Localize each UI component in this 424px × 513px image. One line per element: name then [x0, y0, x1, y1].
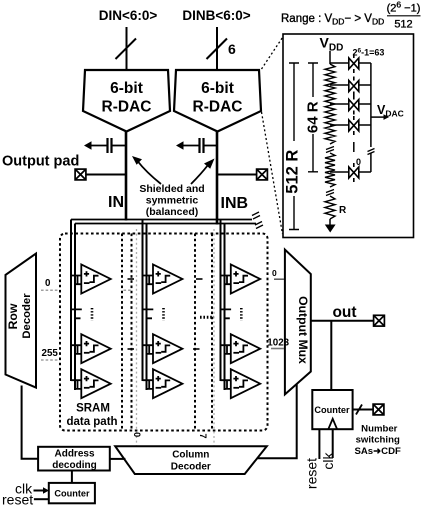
wire switch 4 to bus [359, 124, 371, 126]
block counter (address counter) [49, 483, 95, 503]
wire INB to pad [217, 174, 257, 176]
svg-text:Range : VDD− > VDD: Range : VDD− > VDD [281, 13, 384, 27]
dashed divider col2 left edge [131, 234, 133, 431]
comparator col3 row255 [221, 334, 261, 363]
svg-text:Output pad: Output pad [2, 154, 79, 170]
svg-text:DIN<6:0>: DIN<6:0> [99, 8, 158, 23]
block output mux [285, 250, 311, 395]
switch 0 [349, 163, 359, 182]
output bus [370, 63, 372, 172]
wire INB trunk [216, 132, 219, 225]
column select line 7 (gray dotted) [213, 229, 215, 446]
svg-text:64 R: 64 R [305, 101, 322, 133]
svg-text:IN: IN [108, 194, 124, 211]
wire reset (right) [318, 429, 320, 459]
svg-text:Row: Row [6, 303, 20, 329]
svg-text:512 R: 512 R [284, 150, 302, 194]
svg-text:7: 7 [198, 433, 208, 438]
wire row decoder to address decoding [22, 386, 38, 459]
tap wire switch 4 [330, 124, 350, 126]
dashed divider col2 right edge [194, 234, 196, 431]
svg-text:Counter: Counter [314, 405, 350, 415]
inset box [283, 34, 414, 238]
pad P4 (counter output pad) [373, 404, 384, 415]
block row decoder [6, 254, 37, 388]
capacitor C2 (right shield cap) [181, 138, 217, 153]
block U1 6-bit R-DAC left [83, 70, 170, 132]
column select line 0 (gray dotted) [136, 229, 138, 446]
rail col3 IN [220, 220, 222, 382]
rail col2 INB [146, 224, 148, 391]
wire clk (right) [332, 429, 334, 458]
rail col3 INB [224, 224, 226, 391]
vertical ellipsis col2 [162, 308, 165, 321]
svg-text:Counter: Counter [54, 489, 90, 499]
ellipsis switches [353, 142, 355, 152]
svg-text:switching: switching [356, 435, 400, 446]
wire VDAC [371, 116, 384, 118]
wire distribution line B (INB rail bus) [75, 223, 256, 225]
tap wire switch 0 [330, 171, 350, 173]
SRAM array outer dashed box [60, 234, 268, 431]
svg-text:reset: reset [304, 458, 320, 489]
break mark line A [252, 212, 260, 219]
comparator col1 last [71, 369, 111, 398]
ground [329, 219, 331, 225]
break mark ladder 1 [326, 147, 334, 153]
comparator col1 row0 [71, 265, 111, 294]
dashed divider col3 left edge [211, 234, 213, 431]
vertical ellipsis col3 [240, 308, 243, 321]
bus-width slash DINB [207, 39, 228, 60]
tap wire switch 63 [330, 62, 350, 64]
svg-text:Shielded and: Shielded and [139, 183, 204, 195]
callout dashed line upper [262, 36, 284, 69]
capacitor C1 (left shield cap) [89, 138, 126, 153]
wire switch 0 to bus [359, 171, 371, 173]
rail col1 INB [74, 224, 76, 391]
resistor ladder upper [325, 64, 335, 144]
row tick gap2 row0 [196, 278, 203, 280]
wire DINB bus [216, 27, 218, 70]
wire VDD to ladder [329, 51, 331, 64]
svg-text:(balanced): (balanced) [146, 206, 199, 218]
comparator col3 row0 [221, 265, 261, 294]
break mark bus [368, 149, 375, 155]
svg-text:R: R [339, 205, 347, 216]
row tick gap2 row255 [193, 348, 200, 350]
comparator col3 last [221, 369, 261, 398]
svg-text:6-bit: 6-bit [201, 80, 234, 97]
comparator col1 row255 [71, 334, 111, 363]
dimension line 512R [289, 63, 299, 230]
svg-text:Output Mux: Output Mux [296, 296, 310, 364]
block counter (SA counter) [312, 390, 352, 429]
bus slash counter output [356, 405, 362, 415]
tap wire switch 2 [330, 84, 350, 86]
wire out [311, 320, 374, 322]
wire reset [34, 498, 49, 500]
svg-text:(26 −1): (26 −1) [387, 0, 421, 15]
horizontal ellipsis between col2 and col3 [200, 316, 214, 319]
switch 4 [349, 116, 359, 135]
break mark line B [255, 222, 263, 229]
annotation arrow to INB [191, 165, 208, 184]
underline mux 1023 [271, 348, 284, 350]
svg-text:1023: 1023 [267, 337, 289, 348]
pad P2 (INB output pad) [257, 169, 268, 180]
svg-text:INB: INB [221, 195, 249, 212]
row line 0 (gray dashed) [41, 289, 131, 291]
pad P3 (out pad) [374, 315, 385, 326]
switch 63 [349, 54, 359, 73]
underline mux 0 [274, 278, 284, 280]
clock wedge counter [328, 419, 337, 429]
wire IN trunk [125, 132, 128, 221]
wire clk arrow [34, 490, 45, 492]
row tick gap1 row255 [128, 348, 135, 350]
svg-text:R-DAC: R-DAC [193, 99, 243, 116]
break mark ladder 2 [326, 190, 334, 196]
svg-text:0: 0 [45, 278, 51, 289]
bus-width slash DIN [116, 39, 137, 60]
comparator col2 last [143, 369, 183, 398]
wire distribution line A (IN rail bus) [71, 219, 252, 221]
resistor ladder middle [325, 153, 335, 187]
wire DIN bus [126, 27, 128, 70]
svg-text:26-1=63: 26-1=63 [353, 48, 385, 58]
svg-text:0: 0 [132, 432, 142, 437]
dashed divider col1 right edge [121, 234, 123, 431]
svg-text:Decoder: Decoder [171, 462, 211, 473]
svg-text:6: 6 [228, 41, 236, 57]
svg-text:0: 0 [356, 157, 361, 167]
svg-text:255: 255 [42, 348, 59, 359]
svg-text:SRAM: SRAM [76, 403, 110, 415]
wire address decoding to counter [71, 471, 73, 483]
row tick gap1 row0 [128, 278, 135, 280]
svg-text:out: out [332, 304, 356, 321]
vertical ellipsis col1 [91, 308, 94, 321]
svg-text:SAs➜CDF: SAs➜CDF [354, 446, 401, 457]
wire address decoding to column decoder [110, 458, 126, 460]
svg-text:clk: clk [320, 451, 336, 469]
dimension line 64R [308, 63, 318, 172]
wire out to counter [330, 321, 332, 390]
svg-text:Address: Address [54, 448, 94, 459]
wire switch 3 to bus [359, 103, 371, 105]
row line 255 (gray dashed) [41, 359, 58, 361]
svg-text:data path: data path [66, 416, 117, 428]
wire switch 63 to bus [359, 62, 371, 64]
svg-text:Decoder: Decoder [21, 293, 33, 339]
block U2 6-bit R-DAC right [174, 70, 261, 132]
comparator col2 row255 [143, 334, 183, 363]
wire mux to column decoder [255, 384, 297, 458]
callout dashed line lower [262, 112, 283, 234]
wire counter output [353, 409, 373, 411]
svg-text:Column: Column [172, 450, 209, 461]
wire pad to IN [86, 174, 126, 176]
svg-text:0: 0 [272, 268, 277, 278]
block address decoding [38, 447, 110, 471]
ellipsis stubs col3 [221, 309, 232, 318]
resistor R (bottom) [325, 196, 335, 219]
rail col1 IN [70, 220, 72, 382]
tap wire switch 3 [330, 103, 350, 105]
svg-text:symmetric: symmetric [146, 195, 199, 207]
annotation arrow to IN [138, 161, 162, 184]
svg-text:6-bit: 6-bit [110, 80, 143, 97]
comparator col2 row0 [143, 265, 183, 294]
switch 2 [349, 77, 359, 96]
svg-text:DINB<6:0>: DINB<6:0> [182, 8, 250, 23]
svg-text:R-DAC: R-DAC [102, 99, 152, 116]
svg-text:reset: reset [2, 492, 33, 508]
switch 3 [349, 96, 359, 115]
wire switch 2 to bus [359, 84, 371, 86]
rail col2 IN [142, 220, 144, 382]
svg-text:Number: Number [361, 424, 398, 435]
ellipsis stubs col1 [71, 309, 82, 318]
svg-text:512: 512 [394, 19, 412, 31]
ellipsis stubs col2 [143, 309, 154, 318]
svg-text:decoding: decoding [52, 460, 96, 471]
pad P1 (IN output pad) [75, 169, 86, 180]
block column decoder [115, 446, 267, 474]
